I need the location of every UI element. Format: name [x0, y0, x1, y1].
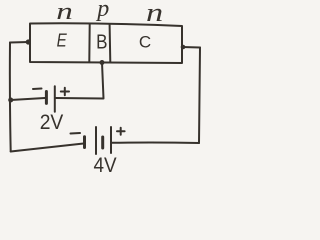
- wire 2V to base: [56, 63, 104, 99]
- svg-text:B: B: [96, 30, 107, 53]
- wire bottom left: [11, 144, 84, 152]
- svg-text:n: n: [146, 0, 163, 27]
- node emitter junction dot: [26, 39, 31, 44]
- wire left vertical: [9, 43, 12, 152]
- wire right vertical: [199, 48, 200, 144]
- minus sign 2V: [33, 88, 42, 91]
- minus sign 4V: [71, 132, 81, 135]
- node collector junction dot: [181, 45, 186, 50]
- plus sign 4V: [117, 128, 125, 135]
- plus sign 2V: [61, 88, 69, 95]
- battery 2V positive plate: [54, 86, 56, 112]
- battery 4V cell2 negative plate: [101, 137, 104, 148]
- battery 4V cell2 positive plate: [110, 127, 112, 153]
- battery 4V cell1 positive plate: [95, 127, 97, 154]
- svg-text:C: C: [139, 33, 151, 52]
- wire collector lead: [182, 46, 200, 49]
- svg-text:n: n: [56, 0, 73, 25]
- B/C divider: [109, 25, 112, 63]
- svg-text:p: p: [95, 0, 109, 22]
- battery 4V cell1 negative plate: [83, 137, 86, 148]
- wire emitter lead: [10, 41, 29, 44]
- svg-text:2V: 2V: [40, 111, 64, 134]
- node base junction dot: [100, 60, 105, 65]
- svg-text:4V: 4V: [93, 154, 117, 177]
- transistor body outline: [30, 23, 182, 63]
- E/B divider: [88, 24, 90, 62]
- battery 2V negative plate: [45, 92, 48, 104]
- wire base branch: [11, 98, 45, 100]
- wire bottom right: [112, 141, 199, 144]
- svg-text:E: E: [57, 30, 68, 51]
- node left-wire junction dot: [8, 98, 13, 103]
